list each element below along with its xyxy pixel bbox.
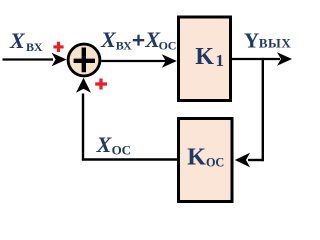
block Koc bbox=[179, 119, 233, 202]
wire: input Xвх to summer bbox=[3, 58, 54, 60]
svg-text:Y: Y bbox=[244, 29, 259, 53]
arrowhead into Koc (left-pointing) bbox=[235, 153, 250, 167]
svg-text:X: X bbox=[96, 132, 113, 157]
svg-text:ОС: ОС bbox=[112, 143, 131, 158]
wire: junction drop from output to feedback bbox=[262, 58, 264, 161]
svg-text:X: X bbox=[9, 28, 26, 53]
arrowhead into K1 (right-pointing) bbox=[162, 54, 177, 67]
wire: feedback from Koc left to under summer bbox=[83, 94, 177, 160]
block K1 bbox=[179, 17, 231, 101]
arrowhead output (right-pointing) bbox=[277, 52, 292, 65]
svg-text:ВЫХ: ВЫХ bbox=[259, 36, 291, 51]
sign + (red, input polarity) bbox=[53, 42, 63, 52]
svg-text:1: 1 bbox=[216, 51, 225, 70]
svg-text:ОС: ОС bbox=[159, 39, 177, 53]
arrowhead into summer (right-pointing) bbox=[52, 53, 67, 66]
svg-text:ОС: ОС bbox=[206, 156, 224, 170]
sign + (red, feedback polarity) bbox=[95, 79, 107, 90]
wire: feedback into Koc right side bbox=[248, 159, 263, 161]
svg-text:ВХ: ВХ bbox=[116, 39, 132, 53]
svg-text:ВХ: ВХ bbox=[26, 40, 43, 54]
node: summing junction circle bbox=[68, 44, 100, 76]
svg-text:K: K bbox=[195, 44, 214, 70]
plus symbol inside summer bbox=[74, 48, 95, 73]
wire: summer to K1 bbox=[101, 60, 166, 62]
svg-text:X: X bbox=[100, 27, 117, 52]
arrowhead into summer bottom (up-pointing) bbox=[76, 78, 91, 93]
wire: K1 output Yвых bbox=[231, 58, 281, 60]
svg-text:K: K bbox=[187, 145, 206, 171]
